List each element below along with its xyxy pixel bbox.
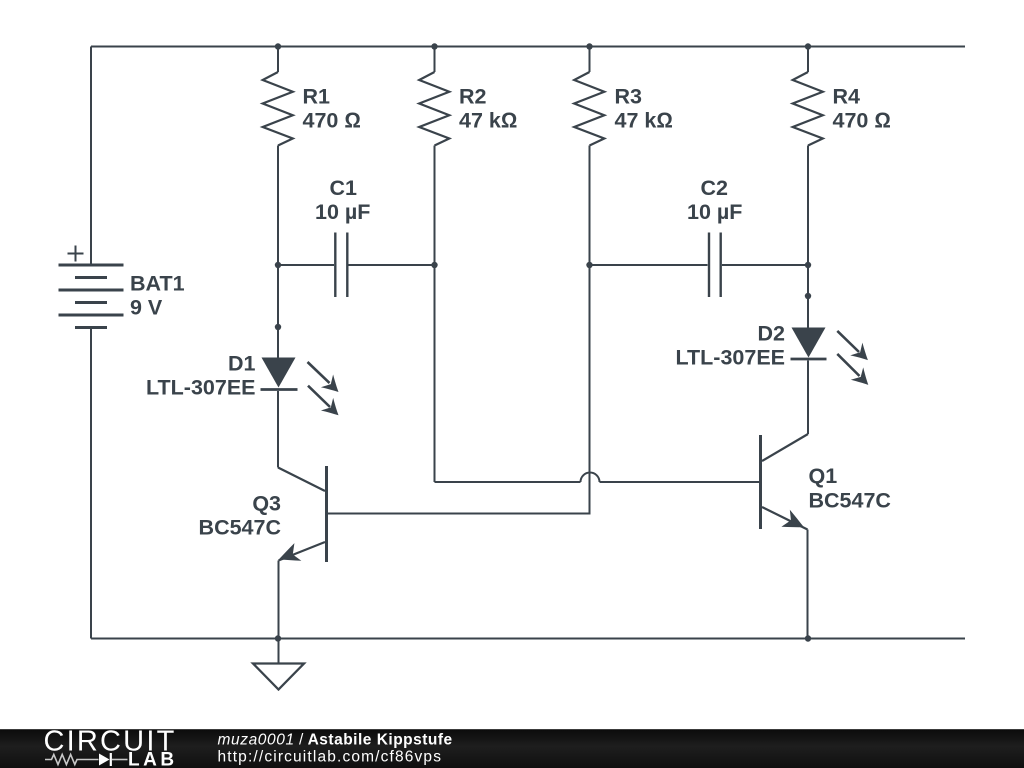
wire Q1 base left segment [435, 481, 581, 483]
capacitor C1 plates [335, 233, 347, 298]
LED D1 light arrow 1 [308, 362, 345, 398]
LED D1 cathode bar [261, 388, 298, 391]
svg-text:9 V: 9 V [130, 296, 163, 320]
svg-text:R2: R2 [459, 85, 487, 109]
svg-text:470 Ω: 470 Ω [833, 109, 891, 133]
svg-text:LAB: LAB [128, 750, 178, 768]
LED D1 triangle [262, 358, 296, 388]
svg-text:R1: R1 [303, 85, 331, 109]
wire R3 bottom lead down and left to Q3 base [327, 146, 590, 514]
node top rail R1 [275, 43, 281, 49]
node C2 right [805, 262, 811, 268]
label R1 [303, 85, 361, 133]
battery BAT1 plates [59, 265, 124, 328]
wire C2 left [590, 264, 708, 266]
svg-text:BC547C: BC547C [809, 489, 891, 513]
svg-text:D1: D1 [228, 351, 256, 375]
svg-text:BC547C: BC547C [199, 516, 281, 540]
label BAT1 [130, 272, 185, 320]
transistor Q1 emitter arrow [781, 510, 808, 536]
node C1 left [275, 262, 281, 268]
node top rail R2 [431, 43, 437, 49]
resistor R1 zigzag [263, 72, 293, 146]
wire R2 top lead [434, 47, 436, 73]
node top rail R3 [586, 43, 592, 49]
svg-text:LTL-307EE: LTL-307EE [146, 375, 256, 399]
label C1 [315, 176, 370, 224]
transistor Q1 collector slant [762, 434, 808, 461]
label D2 [675, 322, 785, 370]
wire top rail [91, 46, 965, 48]
transistor Q1 base bar [759, 435, 762, 529]
label R4 [833, 85, 891, 133]
wire C1 left [278, 264, 334, 266]
svg-text:Q1: Q1 [809, 464, 838, 488]
svg-text:http://circuitlab.com/cf86vps: http://circuitlab.com/cf86vps [218, 749, 443, 766]
LED D2 light arrow 1 [837, 331, 874, 367]
LED D2 light arrow 2 [837, 354, 874, 391]
wire Q1 emitter to bottom rail [807, 530, 809, 639]
wire C1 right [349, 264, 435, 266]
footer bar [0, 729, 1024, 768]
footer logo resistor doodle [45, 755, 99, 765]
LED D2 triangle [792, 328, 826, 358]
svg-text:D2: D2 [758, 322, 786, 346]
svg-text:470 Ω: 470 Ω [303, 109, 361, 133]
svg-text:C2: C2 [701, 176, 729, 200]
footer logo diode doodle [99, 754, 110, 766]
svg-text:10 µF: 10 µF [687, 200, 742, 224]
label Q1 [809, 464, 891, 513]
svg-text:R4: R4 [833, 85, 861, 109]
svg-text:47 kΩ: 47 kΩ [459, 109, 517, 133]
wire battery top lead [90, 47, 92, 264]
wire R1 top lead [277, 47, 279, 73]
transistor Q3 collector slant [278, 468, 325, 492]
transistor Q3 emitter slant [279, 542, 326, 561]
wire R3 top lead [589, 47, 591, 73]
svg-text:muza0001 / Astabile Kippstufe: muza0001 / Astabile Kippstufe [218, 732, 453, 749]
wire battery bottom lead [90, 329, 92, 639]
LED D1 light arrow 2 [308, 386, 345, 422]
LED D2 cathode bar [791, 358, 827, 361]
svg-text:Q3: Q3 [252, 492, 281, 516]
wire D2 cathode to Q1 collector [807, 361, 809, 435]
transistor Q3 base bar [325, 466, 328, 562]
battery plus sign [68, 246, 84, 262]
node bottom rail Q3 [275, 635, 281, 641]
label C2 [687, 176, 742, 224]
label Q3 [199, 492, 281, 540]
capacitor C2 plates [709, 233, 721, 298]
wire hop over R3 net [581, 473, 600, 483]
label R2 [459, 85, 517, 133]
resistor R2 zigzag [419, 72, 449, 146]
svg-text:C1: C1 [330, 176, 358, 200]
svg-text:LTL-307EE: LTL-307EE [675, 346, 785, 370]
svg-text:47 kΩ: 47 kΩ [615, 109, 673, 133]
node C1 right [431, 262, 437, 268]
wire bottom rail [91, 638, 965, 640]
node bottom rail Q1 [805, 635, 811, 641]
transistor Q3 emitter arrow [275, 543, 301, 568]
svg-text:BAT1: BAT1 [130, 272, 185, 296]
label R3 [615, 85, 673, 133]
wire R1 bottom lead to LED D1 [277, 146, 279, 358]
node D2 anode [805, 293, 811, 299]
label D1 [146, 351, 256, 399]
wire R4 top lead [807, 47, 809, 73]
wire D1 cathode to Q3 collector [277, 391, 279, 468]
wire R4 bottom lead to LED D2 [807, 146, 809, 328]
transistor Q1 emitter slant [762, 507, 808, 530]
wire Q3 emitter to bottom rail and ground [278, 561, 280, 664]
resistor R4 zigzag [793, 72, 823, 146]
resistor R3 zigzag [574, 72, 604, 146]
wire R2 bottom lead down to Q1 base level [434, 146, 436, 483]
ground [253, 664, 304, 690]
node top rail R4 [805, 43, 811, 49]
node D1 anode [275, 324, 281, 330]
svg-text:R3: R3 [615, 85, 643, 109]
wire Q1 base right segment [600, 481, 761, 483]
wire C2 right [722, 264, 808, 266]
svg-text:10 µF: 10 µF [315, 200, 370, 224]
node C2 left [586, 262, 592, 268]
